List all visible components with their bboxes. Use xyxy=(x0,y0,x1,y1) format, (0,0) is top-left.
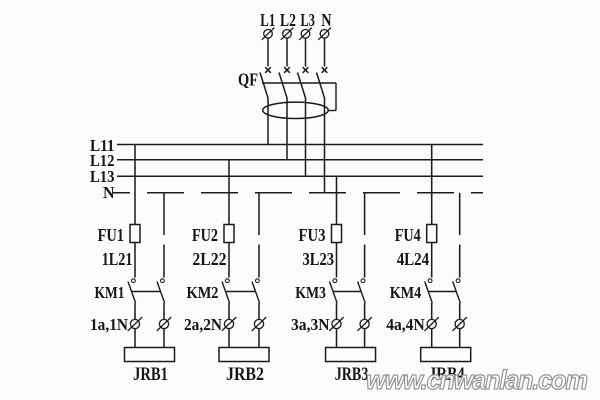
svg-text:FU4: FU4 xyxy=(395,225,421,245)
svg-text:L2: L2 xyxy=(280,10,296,30)
svg-text:KM1: KM1 xyxy=(95,283,125,302)
svg-text:FU3: FU3 xyxy=(299,225,326,245)
svg-text:L3: L3 xyxy=(301,10,315,30)
svg-text:2L22: 2L22 xyxy=(192,249,226,269)
svg-text:1L21: 1L21 xyxy=(102,249,133,269)
svg-text:KM2: KM2 xyxy=(187,283,219,302)
svg-text:4a,4N: 4a,4N xyxy=(386,315,425,334)
svg-text:1a,1N: 1a,1N xyxy=(90,315,128,334)
svg-text:FU1: FU1 xyxy=(98,225,124,245)
svg-text:N: N xyxy=(103,183,115,202)
svg-text:QF: QF xyxy=(238,69,258,89)
svg-text:KM4: KM4 xyxy=(390,283,422,302)
svg-text:2a,2N: 2a,2N xyxy=(184,315,222,334)
svg-text:4L24: 4L24 xyxy=(397,249,430,269)
svg-text:JRB2: JRB2 xyxy=(226,364,264,385)
svg-text:JRB3: JRB3 xyxy=(335,364,369,385)
svg-text:JRB1: JRB1 xyxy=(133,364,168,385)
svg-text:KM3: KM3 xyxy=(295,283,326,302)
svg-text:3a,3N: 3a,3N xyxy=(291,315,330,334)
svg-text:FU2: FU2 xyxy=(192,225,218,245)
svg-text:L1: L1 xyxy=(260,10,275,30)
svg-text:N: N xyxy=(321,10,331,30)
svg-text:3L23: 3L23 xyxy=(303,249,335,269)
